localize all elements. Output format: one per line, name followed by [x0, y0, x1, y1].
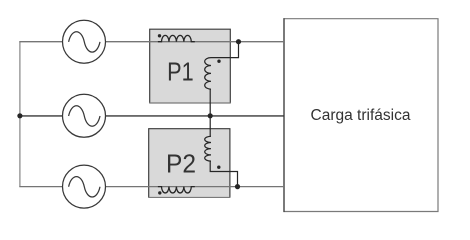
- P1 voltage coil: [205, 58, 211, 90]
- P2 voltage coil: [205, 136, 211, 161]
- wire: phase C line from G3 to load: [106, 186, 285, 188]
- junction: P1 voltage tap on phase A: [236, 39, 241, 44]
- wire: P1 voltage coil to phase B: [209, 89, 211, 116]
- wire: P1 voltage tap from phase A: [211, 42, 239, 58]
- AC source G2 (phase B): [63, 94, 106, 137]
- polarity dot: P2 current coil: [158, 191, 161, 194]
- P2 current coil: [158, 187, 195, 193]
- P1 current coil: [158, 35, 195, 41]
- polarity dot: P1 voltage coil: [217, 60, 220, 63]
- wattmeter P1 body: [149, 29, 231, 103]
- wire: phase B line from G2 to load: [106, 115, 285, 117]
- polarity dot: P2 voltage coil: [217, 166, 220, 169]
- wire: P2 voltage tap from phase B: [209, 116, 211, 137]
- junction: voltage coils on phase B: [208, 113, 213, 118]
- wire: P2 voltage coil to phase C: [210, 161, 237, 187]
- wattmeter P2 body: [148, 129, 230, 198]
- load box: Carga trifasica: [284, 18, 438, 212]
- polarity dot: P1 current coil: [158, 34, 161, 37]
- wire: phase A line from G1 to load: [106, 41, 285, 43]
- svg-text:P1: P1: [167, 57, 194, 87]
- wire: bus to source G3: [19, 186, 62, 188]
- svg-text:Carga trifásica: Carga trifásica: [311, 107, 411, 124]
- junction: bus node on phase B: [17, 113, 22, 118]
- junction: P2 voltage tap on phase C: [235, 184, 240, 189]
- wire: bus to source G1: [19, 41, 62, 43]
- AC source G3 (phase C): [63, 165, 106, 208]
- AC source G1 (phase A): [63, 20, 106, 63]
- wire: phase B line, bus to source G2: [19, 115, 62, 117]
- wire: left bus vertical: [19, 42, 21, 187]
- svg-text:P2: P2: [166, 148, 196, 178]
